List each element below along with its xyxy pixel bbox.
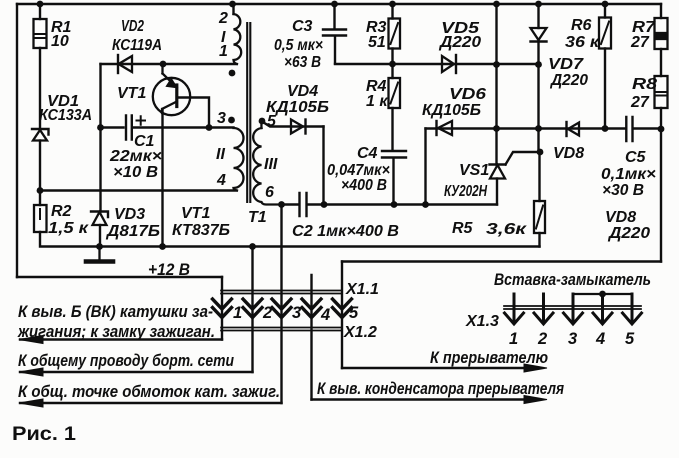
svg-text:К общ. точке обмоток кат. зажи: К общ. точке обмоток кат. зажиг. xyxy=(18,383,280,401)
svg-text:X1.1: X1.1 xyxy=(345,281,379,298)
svg-text:R6: R6 xyxy=(571,17,592,34)
node T1 pin2 top xyxy=(229,1,236,8)
svg-text:С3: С3 xyxy=(292,18,313,35)
resistor R6 xyxy=(599,18,611,49)
wire pin4 stem xyxy=(310,275,312,400)
resistor R1 xyxy=(34,19,47,48)
svg-text:X1.3: X1.3 xyxy=(465,313,499,330)
svg-text:Д817Б: Д817Б xyxy=(105,223,160,240)
node A VD1 R2 pin4 junction xyxy=(37,187,44,194)
wire R6 top stem xyxy=(604,4,606,18)
node R1 top xyxy=(37,1,44,8)
wire VS1 gate xyxy=(506,152,541,165)
svg-text:+12 В: +12 В xyxy=(148,261,190,279)
wire VD2 row from corner to T1 pin1 xyxy=(101,63,237,65)
wire VD4 corner down to C2 node xyxy=(322,127,324,205)
svg-text:КС119А: КС119А xyxy=(112,37,162,54)
wire R4 top stem xyxy=(391,64,393,78)
wire top supply rail xyxy=(17,3,661,5)
svg-text:10: 10 xyxy=(51,33,69,50)
svg-text:×10 В: ×10 В xyxy=(113,164,158,181)
svg-text:3,6к: 3,6к xyxy=(486,221,527,238)
wire VD6 VD8 C5 row xyxy=(426,127,626,129)
svg-text:К прерывателю: К прерывателю xyxy=(430,349,548,367)
wire VD1 bottom to node A xyxy=(39,141,41,191)
wire C1 row right segment to base node xyxy=(133,126,209,128)
svg-text:К общему проводу борт. сети: К общему проводу борт. сети xyxy=(18,352,234,370)
svg-text:VD8: VD8 xyxy=(553,145,584,162)
capacitor C4 xyxy=(382,151,406,158)
svg-text:5: 5 xyxy=(349,304,359,322)
resistor R2 xyxy=(34,205,47,232)
node C3 top xyxy=(331,1,338,8)
transformer T1 winding III xyxy=(253,128,281,205)
svg-text:2: 2 xyxy=(262,304,272,322)
wire C3 bottom stem xyxy=(334,36,336,64)
svg-text:4: 4 xyxy=(320,306,330,324)
svg-text:VS1: VS1 xyxy=(459,162,489,179)
wire R4 bottom to C4 xyxy=(391,108,393,151)
resistor R8 xyxy=(655,76,668,108)
connector X1 pin 3 chevrons xyxy=(272,299,291,318)
svg-text:VT1: VT1 xyxy=(181,205,210,222)
node VD7 cathode junction xyxy=(535,61,542,68)
wire R6 bottom stem xyxy=(604,49,606,129)
connector X1.2 strip xyxy=(221,328,342,331)
svg-text:2: 2 xyxy=(537,330,547,348)
node ground rail VD3 xyxy=(96,243,103,250)
capacitor C2 xyxy=(300,193,307,216)
svg-text:51: 51 xyxy=(368,34,386,51)
svg-text:27: 27 xyxy=(630,34,650,51)
wire line1 to ignition coil xyxy=(20,338,222,340)
svg-text:1: 1 xyxy=(219,43,228,60)
svg-text:VD2: VD2 xyxy=(121,18,144,35)
connector X1.3 pin 2 arrow xyxy=(534,294,553,324)
node VD6 cathode junction xyxy=(493,125,500,132)
svg-text:Д220: Д220 xyxy=(607,225,650,242)
capacitor C3 xyxy=(323,30,346,36)
arrow line1 to ignition coil xyxy=(19,336,43,344)
connector X1.3 pin 1 arrow xyxy=(505,294,524,324)
connector X1.3 strip xyxy=(504,306,641,309)
node VD5 branch top xyxy=(493,1,500,8)
node C1 left junction xyxy=(97,124,104,131)
wire pin1 stem xyxy=(221,277,223,340)
wire R1 bottom to VD1 xyxy=(39,48,41,129)
node R8 bottom junction xyxy=(658,126,665,133)
svg-text:Д220: Д220 xyxy=(549,72,588,89)
svg-text:1: 1 xyxy=(509,330,518,348)
wire line3 to coil windings point xyxy=(20,402,282,404)
wire C1 node down to VD3 xyxy=(99,128,101,212)
svg-text:2: 2 xyxy=(218,10,228,27)
node T1 pin6 C2 junction xyxy=(278,201,285,208)
svg-text:27: 27 xyxy=(630,94,650,111)
node C4 bottom junction xyxy=(391,201,398,208)
arrow line2 to board net xyxy=(19,368,43,376)
node VD6 branch bottom junction xyxy=(422,201,429,208)
wire +12V feed to pin 1 xyxy=(17,276,222,278)
wire C2 anode row left segment xyxy=(282,203,299,205)
wire R5 bottom to common rail xyxy=(538,233,540,247)
wire T1 pin5 link xyxy=(262,122,324,127)
svg-text:0,5 мк×: 0,5 мк× xyxy=(274,37,323,54)
arrow to breaker capacitor xyxy=(524,396,547,404)
svg-text:С2 1мк×400 В: С2 1мк×400 В xyxy=(292,223,399,240)
wire right border top to R7 xyxy=(660,4,662,18)
svg-text:II: II xyxy=(216,146,225,163)
wire left border down to +12V line xyxy=(16,4,18,277)
svg-text:жигания; к замку зажиган.: жигания; к замку зажиган. xyxy=(17,323,215,341)
diode VD7 xyxy=(531,28,547,42)
connector X1.3 pin 3 arrow xyxy=(564,294,583,324)
svg-text:VT1: VT1 xyxy=(117,85,146,102)
node rail VT1 collector xyxy=(159,243,166,250)
svg-text:1,5 к: 1,5 к xyxy=(48,220,89,237)
svg-text:К выв. Б (ВК) катушки за-: К выв. Б (ВК) катушки за- xyxy=(18,303,213,321)
diode VD2 xyxy=(118,55,132,73)
svg-text:3: 3 xyxy=(292,304,301,322)
svg-text:4: 4 xyxy=(595,330,605,348)
connector X1.1 strip xyxy=(221,291,342,294)
resistor R7 xyxy=(655,18,668,49)
svg-text:С5: С5 xyxy=(625,149,647,166)
wire VS1 cathode drop xyxy=(496,179,498,205)
svg-text:С4: С4 xyxy=(357,145,378,162)
wire pin2 stem xyxy=(251,247,253,373)
svg-text:VD3: VD3 xyxy=(114,206,145,223)
node VS1 gate junction xyxy=(537,149,544,156)
svg-text:0,1мк×: 0,1мк× xyxy=(601,166,656,183)
connector X1 pin 4 chevrons xyxy=(302,299,321,318)
wire pin5 stem breaker box left edge xyxy=(341,262,343,369)
wire VD5 node vertical xyxy=(495,4,497,165)
transistor VT1 xyxy=(153,64,190,115)
svg-text:22мк×: 22мк× xyxy=(109,148,162,165)
node R6 top xyxy=(602,1,609,8)
wire line2 to board net xyxy=(20,371,253,373)
svg-text:5: 5 xyxy=(625,330,635,348)
svg-text:36 к: 36 к xyxy=(565,34,600,51)
svg-text:R8: R8 xyxy=(632,76,657,93)
wire C3/R3/VD5 row xyxy=(335,63,539,65)
svg-text:3: 3 xyxy=(568,330,577,348)
transformer T1 core xyxy=(247,23,250,202)
wire T1 pin4 row to node A xyxy=(40,189,236,191)
wire R3 top stem xyxy=(391,4,393,19)
resistor R5 xyxy=(534,201,545,233)
svg-text:VD4: VD4 xyxy=(287,83,318,100)
transformer T1 winding I xyxy=(234,14,242,64)
wire corner down to C1 node xyxy=(99,64,101,128)
wire VD7 branch top xyxy=(537,4,539,28)
node VD2 T1 pin1 junction xyxy=(160,61,167,68)
wire R1 top stem xyxy=(39,4,41,19)
node VD7 branch top xyxy=(535,1,542,8)
svg-text:×30 В: ×30 В xyxy=(602,182,644,199)
svg-text:6: 6 xyxy=(265,184,274,201)
zener VD3 xyxy=(91,212,108,226)
capacitor C1 polar xyxy=(126,116,145,140)
node R3 top xyxy=(389,1,396,8)
node rail pin2 xyxy=(249,243,256,250)
svg-text:КД105Б: КД105Б xyxy=(422,102,481,119)
svg-text:Т1: Т1 xyxy=(248,209,267,226)
winding III polarity dot xyxy=(259,118,266,125)
ground xyxy=(86,247,113,262)
winding II polarity dot xyxy=(228,117,235,124)
node VD5 cathode junction xyxy=(493,61,500,68)
svg-text:Д220: Д220 xyxy=(438,34,481,51)
zener VD1 xyxy=(32,129,49,141)
svg-text:VD6: VD6 xyxy=(449,86,486,103)
wire R8 down to C5 node xyxy=(660,108,662,129)
wire node A to R2 xyxy=(39,191,41,206)
wire VD3 bottom to common rail xyxy=(99,225,101,247)
svg-text:X1.2: X1.2 xyxy=(343,324,377,341)
svg-text:×63 В: ×63 В xyxy=(284,54,321,71)
wire gate node to R5 xyxy=(538,152,540,201)
winding I polarity dot xyxy=(229,70,236,77)
svg-text:Рис. 1: Рис. 1 xyxy=(12,424,76,445)
arrow to breaker xyxy=(524,364,547,372)
wire pin3 stem from pin6 node xyxy=(280,205,282,404)
wire C2 anode row right segment to VS1 xyxy=(308,203,497,205)
node VT1 base junction xyxy=(206,124,213,131)
thyristor VS1 xyxy=(490,165,506,179)
svg-text:КУ202Н: КУ202Н xyxy=(444,183,487,200)
wire VD7 to gate node xyxy=(537,42,539,153)
svg-text:4: 4 xyxy=(216,172,226,189)
diode VD4 xyxy=(291,120,306,134)
transformer T1 winding II xyxy=(234,128,244,191)
wire right border down to breaker box xyxy=(660,129,662,262)
svg-text:VD7: VD7 xyxy=(548,56,584,73)
connector X1.3 pin 4 arrow xyxy=(593,294,612,324)
svg-text:VD8: VD8 xyxy=(605,209,636,226)
svg-text:R5: R5 xyxy=(452,220,474,237)
connector X1 pin 2 chevrons xyxy=(243,299,262,318)
diode VD8 xyxy=(567,122,580,136)
transformer T1 pin5 start link xyxy=(260,122,263,129)
node R6 bottom junction xyxy=(602,125,609,132)
svg-text:3: 3 xyxy=(217,110,226,127)
arrow line3 to windings point xyxy=(19,399,43,407)
svg-text:R2: R2 xyxy=(51,203,72,220)
wire line to breaker xyxy=(342,367,527,369)
wire C5 right segment xyxy=(634,127,662,129)
wire breaker box top edge xyxy=(342,260,661,262)
svg-text:1 к: 1 к xyxy=(366,93,388,110)
wire C4 bottom to anode row xyxy=(392,158,394,205)
connector X1 pin 5 chevrons xyxy=(333,299,352,318)
resistor R3 xyxy=(389,19,401,49)
diode VD5 xyxy=(442,55,456,73)
wire base node to T1 pin3 xyxy=(209,126,234,128)
node R3 R4 junction xyxy=(389,61,396,68)
wire R7 to R8 xyxy=(660,49,662,76)
wire T1 pin2 stem xyxy=(232,4,234,14)
node VD4 C2 junction xyxy=(321,201,328,208)
svg-text:1: 1 xyxy=(233,304,242,322)
connector X1.3 pin 5 arrow xyxy=(623,294,642,324)
svg-text:III: III xyxy=(264,156,278,173)
wire C1 row left segment xyxy=(101,126,124,128)
wire VD6 left branch down xyxy=(424,129,426,205)
wire C3 top stem xyxy=(333,4,335,29)
wire VT1 base run xyxy=(178,98,210,128)
wire R3 bottom stem xyxy=(391,49,393,65)
connector X1.3 shorting bracket xyxy=(573,293,632,295)
wire line to breaker capacitor xyxy=(312,398,528,400)
svg-text:КД105Б: КД105Б xyxy=(266,99,329,116)
svg-text:Вставка-замыкатель: Вставка-замыкатель xyxy=(494,271,651,289)
diode VD6 xyxy=(437,121,453,135)
svg-text:КС133А: КС133А xyxy=(39,107,92,124)
svg-text:КТ837Б: КТ837Б xyxy=(172,222,230,239)
wire R2 bottom to common rail xyxy=(40,232,540,247)
connector X1 pin 1 chevrons xyxy=(213,299,232,318)
wire VT1 collector down to common rail xyxy=(161,109,163,247)
svg-text:×400 В: ×400 В xyxy=(341,177,387,194)
resistor R4 xyxy=(389,78,401,108)
svg-text:К выв. конденсатора прерывател: К выв. конденсатора прерывателя xyxy=(317,380,564,398)
node X1.3 bracket pin4 junction xyxy=(599,291,606,298)
capacitor C5 xyxy=(626,117,632,141)
node VD8 row junction xyxy=(535,125,542,132)
